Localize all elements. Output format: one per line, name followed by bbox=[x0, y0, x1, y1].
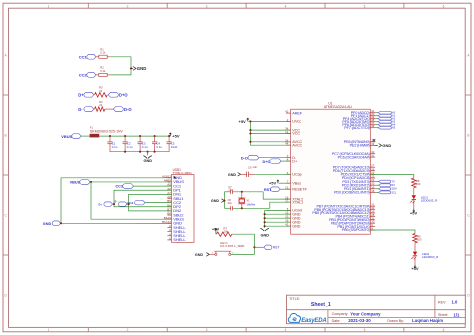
resistor R7 bbox=[217, 232, 232, 236]
wire PB0 to RX resistor bbox=[370, 230, 415, 234]
wire R1 to GND node bbox=[109, 57, 131, 69]
svg-text:RESET#: RESET# bbox=[292, 187, 307, 191]
ground GND below cap rail bbox=[147, 152, 149, 156]
U1 right pins bbox=[370, 112, 375, 114]
capacitor C8 bbox=[229, 207, 230, 209]
svg-text:SDA: SDA bbox=[391, 187, 397, 191]
svg-text:PD0 (OC0B/SCL/INT0): PD0 (OC0B/SCL/INT0) bbox=[334, 191, 371, 195]
svg-text:2: 2 bbox=[127, 328, 129, 332]
junction rail C3 bbox=[139, 135, 141, 137]
svg-text:D+: D+ bbox=[78, 93, 84, 98]
junction U1 gnd bus bbox=[264, 221, 266, 223]
wire crystal left rail bbox=[223, 192, 225, 209]
svg-text:CC1: CC1 bbox=[79, 55, 88, 60]
svg-text:RST: RST bbox=[273, 246, 280, 250]
resistor R3 bbox=[95, 93, 108, 97]
junction rail C1 bbox=[109, 135, 111, 137]
svg-text:+5V: +5V bbox=[410, 211, 418, 216]
wire cap bottom rail bbox=[110, 151, 169, 153]
power flag +5V at UVcc bbox=[247, 118, 249, 121]
svg-text:0.1u: 0.1u bbox=[156, 145, 162, 149]
capacitor C4 bbox=[154, 136, 156, 142]
svg-text:B: B bbox=[467, 134, 469, 138]
svg-text:4: 4 bbox=[285, 4, 287, 8]
svg-text:36: 36 bbox=[371, 124, 375, 128]
svg-text:VBUS: VBUS bbox=[70, 181, 81, 185]
svg-text:EasyEDA: EasyEDA bbox=[301, 318, 326, 324]
wire +5V to VBus bbox=[279, 182, 291, 184]
svg-text:+5V: +5V bbox=[172, 133, 180, 138]
wire CC2 usb bbox=[145, 202, 172, 204]
junction U1 gnd bus bbox=[264, 225, 266, 227]
svg-text:ATMEGA32U4-AU: ATMEGA32U4-AU bbox=[324, 105, 353, 109]
svg-text:D-O: D-O bbox=[241, 156, 248, 160]
power flag +5V at R7 bbox=[215, 229, 217, 232]
frame ticks bbox=[87, 3, 89, 8]
port D+O bbox=[108, 92, 118, 97]
svg-text:Drawn By:: Drawn By: bbox=[387, 319, 404, 323]
svg-text:K2-3.6X6.1_SMD: K2-3.6X6.1_SMD bbox=[220, 244, 245, 248]
junction rail C5 bbox=[168, 135, 170, 137]
junction CC GND node bbox=[130, 67, 132, 69]
USB1 pin stubs bbox=[167, 177, 171, 179]
USB1 pin A1 mark bbox=[174, 176, 177, 179]
wire GND port to row12 bbox=[61, 222, 172, 224]
svg-text:0.1u: 0.1u bbox=[127, 145, 133, 149]
svg-text:D+O: D+O bbox=[119, 93, 128, 98]
port TX bbox=[375, 181, 380, 183]
junction VCC bus bbox=[249, 141, 251, 143]
port A0 bbox=[375, 112, 378, 114]
svg-text:AREF: AREF bbox=[292, 111, 303, 115]
svg-text:5: 5 bbox=[364, 4, 366, 8]
op-amp U1 ATMEGA32U4-AU body bbox=[291, 109, 371, 234]
svg-text:22: 22 bbox=[99, 89, 102, 93]
junction VBUS usb bbox=[90, 181, 92, 183]
junction crystal gnd bbox=[223, 200, 225, 202]
svg-text:BKMD0603-525-1NV: BKMD0603-525-1NV bbox=[90, 129, 123, 133]
junction D- node bbox=[128, 203, 130, 205]
svg-text:Date:: Date: bbox=[332, 319, 341, 323]
capacitor C5 bbox=[168, 136, 170, 142]
capacitor C1 bbox=[109, 136, 111, 142]
push button KEY1 bbox=[215, 253, 217, 255]
wire +5V rail bbox=[99, 135, 170, 137]
svg-text:PC6 (OC3A/OC4A#): PC6 (OC3A/OC4A#) bbox=[338, 155, 371, 159]
wire D+O to U1 bbox=[281, 160, 291, 162]
svg-text:+5V: +5V bbox=[212, 227, 220, 232]
ground GND below U1 bus bbox=[260, 228, 268, 231]
svg-text:GND: GND bbox=[260, 232, 269, 237]
svg-text:10k: 10k bbox=[223, 230, 228, 234]
svg-text:CC1: CC1 bbox=[116, 185, 123, 189]
svg-text:VBUS: VBUS bbox=[61, 134, 72, 139]
svg-text:GND: GND bbox=[195, 253, 204, 257]
LED LED2 bbox=[413, 252, 417, 256]
svg-text:0.1u: 0.1u bbox=[142, 145, 148, 149]
svg-text:Company:: Company: bbox=[332, 312, 349, 316]
svg-text:RX: RX bbox=[391, 183, 395, 187]
port RX bbox=[375, 184, 380, 186]
svg-text:18: 18 bbox=[371, 189, 375, 193]
svg-text:CC2: CC2 bbox=[127, 201, 133, 205]
svg-text:GND: GND bbox=[211, 199, 220, 203]
svg-text:+5V: +5V bbox=[239, 119, 247, 124]
svg-text:5.1k: 5.1k bbox=[100, 51, 106, 55]
wire DN1/DN2 vertical bbox=[127, 194, 171, 204]
junction rail C2 bbox=[124, 135, 126, 137]
wire XTAL2 route bbox=[263, 192, 291, 199]
power flag +5V below LED2 bbox=[414, 265, 416, 268]
svg-text:D-: D- bbox=[78, 107, 83, 112]
junction VCC bus bbox=[249, 132, 251, 134]
wire RST to RESET# bbox=[280, 188, 291, 190]
svg-text:+5V: +5V bbox=[411, 266, 419, 271]
svg-text:3: 3 bbox=[206, 4, 208, 8]
svg-text:PE2 (HWB#): PE2 (HWB#) bbox=[350, 144, 371, 148]
resistor R8 bbox=[412, 178, 416, 188]
svg-text:UVcc: UVcc bbox=[292, 120, 301, 124]
svg-text:VCC: VCC bbox=[292, 132, 300, 136]
svg-text:31: 31 bbox=[371, 154, 375, 158]
svg-text:SHELL: SHELL bbox=[173, 237, 186, 242]
svg-text:GND: GND bbox=[292, 224, 300, 228]
wire GND port up-right bbox=[61, 178, 172, 224]
svg-text:SCL: SCL bbox=[391, 190, 397, 194]
port A2 bbox=[375, 118, 378, 120]
svg-text:2021-03-30: 2021-03-30 bbox=[348, 318, 371, 323]
svg-text:D-: D- bbox=[115, 202, 118, 204]
wire DP1/DP2 vertical bbox=[113, 190, 172, 204]
svg-text:4: 4 bbox=[285, 328, 287, 332]
junction D+ node bbox=[113, 203, 115, 205]
svg-text:1: 1 bbox=[48, 328, 50, 332]
wire XTAL1 route bbox=[270, 202, 291, 208]
svg-text:XTAL1: XTAL1 bbox=[292, 200, 303, 204]
svg-text:22: 22 bbox=[99, 103, 102, 107]
svg-text:22p: 22p bbox=[228, 189, 233, 192]
wire PD5 to TX resistor bbox=[370, 174, 414, 178]
wire R2 to GND node bbox=[109, 68, 131, 75]
junction VCC bus bbox=[249, 120, 251, 122]
svg-text:Sheet:: Sheet: bbox=[438, 313, 448, 317]
capacitor C3 bbox=[139, 136, 141, 142]
svg-text:22p: 22p bbox=[228, 202, 233, 205]
wire R7 to RST node bbox=[234, 234, 255, 254]
wire crystal bottom rail bbox=[224, 207, 229, 209]
svg-text:1.0: 1.0 bbox=[452, 300, 458, 305]
svg-text:B: B bbox=[5, 134, 7, 138]
junction cap bottom rail bbox=[124, 151, 126, 153]
port A5 bbox=[375, 127, 378, 129]
junction U1 gnd bus bbox=[264, 213, 266, 215]
capacitor C7 bbox=[229, 191, 230, 193]
svg-text:C6: C6 bbox=[248, 166, 252, 170]
port A1 bbox=[375, 115, 378, 117]
power flag +5V at VBus bbox=[277, 180, 279, 183]
power flag +5V rail end bbox=[169, 133, 171, 136]
svg-text:1uF: 1uF bbox=[252, 165, 257, 169]
svg-text:REV:: REV: bbox=[438, 301, 446, 305]
connector USB1 body bbox=[172, 175, 195, 243]
U1 left pins bbox=[286, 112, 291, 114]
junction GND tap bbox=[147, 151, 149, 153]
resistor R2 bbox=[96, 74, 99, 76]
svg-text:PF7 (ADC7/TDI): PF7 (ADC7/TDI) bbox=[344, 126, 370, 130]
svg-text:GND: GND bbox=[137, 66, 147, 71]
svg-text:LED0603_R: LED0603_R bbox=[421, 199, 438, 203]
svg-text:1/1: 1/1 bbox=[454, 312, 460, 317]
junction U1 gnd bus bbox=[264, 217, 266, 219]
wire crystal top rail bbox=[224, 191, 229, 193]
svg-text:6: 6 bbox=[443, 328, 445, 332]
svg-text:100: 100 bbox=[417, 238, 422, 242]
svg-text:2: 2 bbox=[127, 4, 129, 8]
svg-text:A5: A5 bbox=[392, 126, 396, 130]
wire VCC/AVCC bus bbox=[250, 121, 290, 145]
junction cap bottom rail bbox=[139, 151, 141, 153]
junction crystal bottom bbox=[241, 207, 243, 209]
port SDA bbox=[375, 188, 380, 190]
port D-O bbox=[113, 107, 123, 112]
wire RST node to port bbox=[254, 246, 264, 248]
wire U1 GND bus bbox=[264, 210, 266, 227]
port A3 bbox=[375, 121, 378, 123]
svg-text:TX: TX bbox=[391, 180, 395, 184]
wire R8 to LED1 bbox=[413, 188, 415, 195]
svg-text:5: 5 bbox=[364, 328, 366, 332]
svg-text:3: 3 bbox=[206, 328, 208, 332]
wire VBUS usb bbox=[90, 181, 171, 183]
ground GND flag right of CC node bbox=[131, 67, 133, 69]
svg-text:TITLE:: TITLE: bbox=[289, 297, 300, 301]
wire CC1 usb bbox=[134, 185, 172, 187]
wire D-O to U1 bbox=[259, 157, 291, 159]
no-connect X at PE6 bbox=[373, 139, 376, 142]
svg-text:42: 42 bbox=[285, 110, 289, 114]
svg-text:CC2: CC2 bbox=[79, 73, 88, 78]
resistor R4 bbox=[95, 107, 105, 111]
junction GND port bbox=[60, 222, 62, 224]
capacitor C6 bbox=[241, 173, 247, 175]
port SCL bbox=[375, 191, 380, 193]
wire KEY1 to RST node bbox=[231, 253, 255, 255]
ferrite bead F1 bbox=[90, 134, 99, 137]
svg-text:LED0603_R: LED0603_R bbox=[422, 255, 439, 259]
svg-text:D-O: D-O bbox=[124, 107, 132, 112]
junction RST node bbox=[253, 246, 255, 248]
LED LED1 bbox=[412, 195, 416, 199]
wire R9 to LED2 bbox=[414, 243, 416, 252]
svg-text:GND: GND bbox=[143, 158, 152, 163]
svg-text:GND: GND bbox=[228, 173, 237, 177]
svg-text:5.1k: 5.1k bbox=[100, 69, 106, 73]
power flag +5V below LED1 bbox=[413, 209, 415, 212]
ground GND at PE2 bbox=[375, 144, 378, 146]
svg-text:100: 100 bbox=[416, 182, 421, 186]
junction cap bottom rail bbox=[154, 151, 156, 153]
svg-text:Sheet_1: Sheet_1 bbox=[311, 302, 331, 308]
EasyEDA logo bbox=[288, 313, 300, 322]
svg-text:Luqman Haqim: Luqman Haqim bbox=[412, 318, 443, 323]
wire +5V to UVcc bbox=[249, 120, 291, 122]
svg-text:D+O: D+O bbox=[263, 160, 271, 164]
port RST bottom bbox=[264, 245, 272, 250]
wire VBUS down to row11 bbox=[91, 182, 172, 219]
junction rail C4 bbox=[154, 135, 156, 137]
svg-text:10uF: 10uF bbox=[171, 145, 178, 149]
svg-text:+5V: +5V bbox=[269, 181, 277, 186]
svg-text:GND: GND bbox=[382, 143, 391, 148]
svg-text:33: 33 bbox=[371, 142, 375, 146]
svg-text:1: 1 bbox=[48, 4, 50, 8]
svg-text:D+: D+ bbox=[99, 202, 103, 206]
resistor R9 bbox=[413, 234, 417, 243]
svg-text:UCap: UCap bbox=[292, 173, 301, 177]
resistor R1 bbox=[96, 56, 99, 58]
crystal X1 bbox=[241, 192, 243, 198]
svg-text:0.1u: 0.1u bbox=[112, 145, 118, 149]
svg-text:PB0 (SS/PCINT0): PB0 (SS/PCINT0) bbox=[342, 228, 371, 232]
svg-text:6: 6 bbox=[443, 4, 445, 8]
junction crystal top bbox=[241, 191, 243, 193]
wire LED2 to +5V bbox=[414, 256, 416, 265]
port A4 bbox=[375, 124, 378, 126]
svg-text:16MHz: 16MHz bbox=[246, 202, 255, 206]
wire LED1 to +5V bbox=[413, 199, 415, 208]
svg-text:GND: GND bbox=[43, 222, 52, 226]
title block grid bbox=[287, 295, 466, 324]
wire C6 to UCap bbox=[255, 173, 291, 175]
wire VBUS to F1 bbox=[81, 135, 90, 137]
svg-text:Your Company: Your Company bbox=[350, 311, 381, 316]
capacitor C2 bbox=[124, 136, 126, 142]
svg-text:AVCC: AVCC bbox=[292, 143, 302, 147]
svg-text:VBus: VBus bbox=[292, 181, 301, 185]
junction VCC bus bbox=[249, 129, 251, 131]
